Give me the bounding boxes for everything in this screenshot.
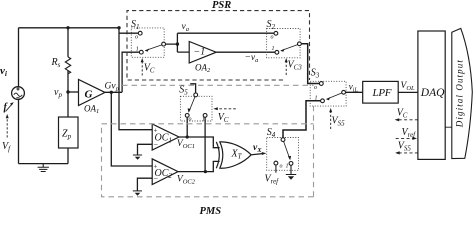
svg-text:−: − xyxy=(154,174,159,183)
ground (S4) xyxy=(286,174,296,176)
node Gvp junction xyxy=(110,91,113,94)
resistor Rs xyxy=(67,28,69,92)
wire left vertical xyxy=(18,28,20,164)
svg-text:1: 1 xyxy=(202,117,205,123)
node va junction xyxy=(176,42,179,45)
svg-text:VS5: VS5 xyxy=(398,141,412,153)
svg-text:VC: VC xyxy=(218,112,229,124)
wire LPF to DAQ xyxy=(398,91,418,93)
switch S2 xyxy=(267,29,302,58)
comparator OC1 xyxy=(152,124,179,150)
voltage source Vi xyxy=(12,87,25,100)
svg-text:vi: vi xyxy=(0,65,8,78)
box PSR dashed xyxy=(127,11,310,80)
svg-text:VC3: VC3 xyxy=(288,60,303,72)
op-amp OA1 xyxy=(79,80,106,106)
svg-text:S4: S4 xyxy=(267,127,276,139)
svg-text:o: o xyxy=(280,164,283,170)
svg-text:G: G xyxy=(85,89,93,101)
f adjust arrow on source xyxy=(6,104,13,112)
svg-text:LPF: LPF xyxy=(372,87,392,99)
op-amp OA2 xyxy=(189,42,216,64)
comparator OC2 xyxy=(152,159,178,185)
svg-text:1: 1 xyxy=(286,164,289,170)
junction VOC1 / S5 xyxy=(186,135,189,138)
svg-text:o: o xyxy=(271,35,274,41)
control VC arrow into S1 xyxy=(141,62,143,76)
wire S3 bottom input from S4 pole xyxy=(283,101,321,138)
control VC arrow into S5 xyxy=(217,108,236,110)
junction VOC2 / S5 xyxy=(204,170,207,173)
wire Gvp up to S1 bottom xyxy=(122,52,139,92)
ground (OC2 minus) xyxy=(133,190,142,192)
svg-text:va: va xyxy=(182,22,189,33)
impedance Zp xyxy=(67,92,69,117)
svg-text:f: f xyxy=(4,102,9,113)
svg-text:o: o xyxy=(314,85,317,91)
svg-text:OA2: OA2 xyxy=(195,63,211,75)
node vp wires xyxy=(68,91,79,93)
svg-text:VOL: VOL xyxy=(401,81,416,92)
svg-text:VOC1: VOC1 xyxy=(177,139,195,150)
junction vi rail xyxy=(117,26,120,29)
wire bottom rail xyxy=(19,163,69,165)
svg-text:VC: VC xyxy=(397,108,408,120)
wire OC2 minus to ground xyxy=(137,178,152,191)
control VC arrow out of DAQ xyxy=(399,119,418,121)
wire OA2 output -va xyxy=(216,51,275,53)
wire OA1 output to Gvp node xyxy=(105,91,122,93)
xor gate XT xyxy=(216,142,251,168)
wire S5 pole up to PSR edge xyxy=(190,84,195,93)
svg-text:vp: vp xyxy=(54,87,62,99)
control VS5 arrow out of DAQ xyxy=(399,152,418,154)
junction Rs top rail xyxy=(66,26,69,29)
svg-text:1: 1 xyxy=(136,47,139,53)
svg-text:1: 1 xyxy=(272,46,275,52)
wire S5 right stem to VOC2 xyxy=(204,117,206,171)
svg-text:PMS: PMS xyxy=(200,206,222,214)
svg-text:VS5: VS5 xyxy=(332,116,346,128)
wire S2 pole to S3 top xyxy=(301,44,319,84)
box PMS dashed upper boundary xyxy=(122,84,314,86)
node vp junction xyxy=(66,90,69,93)
svg-text:+: + xyxy=(154,163,158,171)
wire vi vertical down to OC1 + xyxy=(119,28,152,130)
wire vi branch to S1 top xyxy=(119,32,138,34)
switch S3 xyxy=(310,81,346,106)
wire S3 pole to LPF xyxy=(346,91,363,93)
block DAQ xyxy=(418,31,445,159)
svg-text:1: 1 xyxy=(315,96,318,102)
svg-text:OA1: OA1 xyxy=(84,104,99,116)
switch S1 xyxy=(131,28,165,57)
node va wires xyxy=(166,33,275,52)
wire vX output arrow to S4 xyxy=(251,154,262,155)
wire Gvp down to OC2 + xyxy=(111,92,152,166)
svg-text:vX: vX xyxy=(253,143,262,154)
switch S4 xyxy=(267,138,299,171)
svg-text:o: o xyxy=(189,117,192,123)
svg-text:Vref: Vref xyxy=(402,127,417,139)
control VS5 arrow into S3 xyxy=(330,112,332,130)
svg-text:Vref: Vref xyxy=(265,174,280,186)
control Vref arrow into DAQ xyxy=(396,137,413,139)
ground (main) xyxy=(42,164,44,168)
svg-text:−: − xyxy=(154,140,159,149)
svg-text:S1: S1 xyxy=(131,19,140,31)
wire VOC1 to XOR top input xyxy=(179,137,220,148)
wire VOC2 to XOR bottom input xyxy=(178,161,220,171)
svg-text:Vf: Vf xyxy=(2,141,11,153)
control Vf source frequency xyxy=(6,118,8,138)
box PMS dashed main xyxy=(102,124,314,197)
ground (OC1 minus) xyxy=(138,144,153,155)
svg-text:+: + xyxy=(154,127,158,135)
svg-text:S5: S5 xyxy=(179,85,188,97)
svg-text:VOC2: VOC2 xyxy=(177,175,196,186)
wire DAQ to banner connector xyxy=(445,126,452,128)
wire top rail xyxy=(19,27,120,29)
box PMS dashed right border xyxy=(313,106,315,197)
svg-text:−va: −va xyxy=(245,53,259,64)
svg-text:Digital Output: Digital Output xyxy=(455,59,465,128)
wire S5 left stem to VOC1 xyxy=(186,117,188,137)
wire S4 left throw to Vref xyxy=(275,165,277,173)
shape digital output banner xyxy=(452,28,473,158)
svg-text:o: o xyxy=(135,35,138,41)
svg-text:S2: S2 xyxy=(267,19,276,31)
svg-text:PSR: PSR xyxy=(212,0,231,11)
svg-text:S3: S3 xyxy=(311,68,320,80)
svg-text:DAQ: DAQ xyxy=(420,87,445,99)
wire S4 right throw to ground xyxy=(290,165,292,174)
svg-text:Gvp: Gvp xyxy=(105,82,120,93)
control VC3 arrow into S2 xyxy=(285,62,287,76)
switch S5 xyxy=(180,93,212,121)
block LPF xyxy=(363,81,399,103)
svg-text:−1: −1 xyxy=(194,47,206,58)
svg-text:Rs: Rs xyxy=(51,57,61,69)
svg-text:VC: VC xyxy=(144,63,155,75)
